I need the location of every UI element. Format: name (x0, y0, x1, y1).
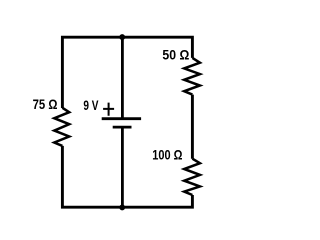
svg-text:50 Ω: 50 Ω (162, 46, 189, 62)
svg-text:100 Ω: 100 Ω (152, 146, 182, 162)
svg-text:75 Ω: 75 Ω (33, 96, 58, 112)
svg-text:9 V: 9 V (83, 97, 99, 113)
